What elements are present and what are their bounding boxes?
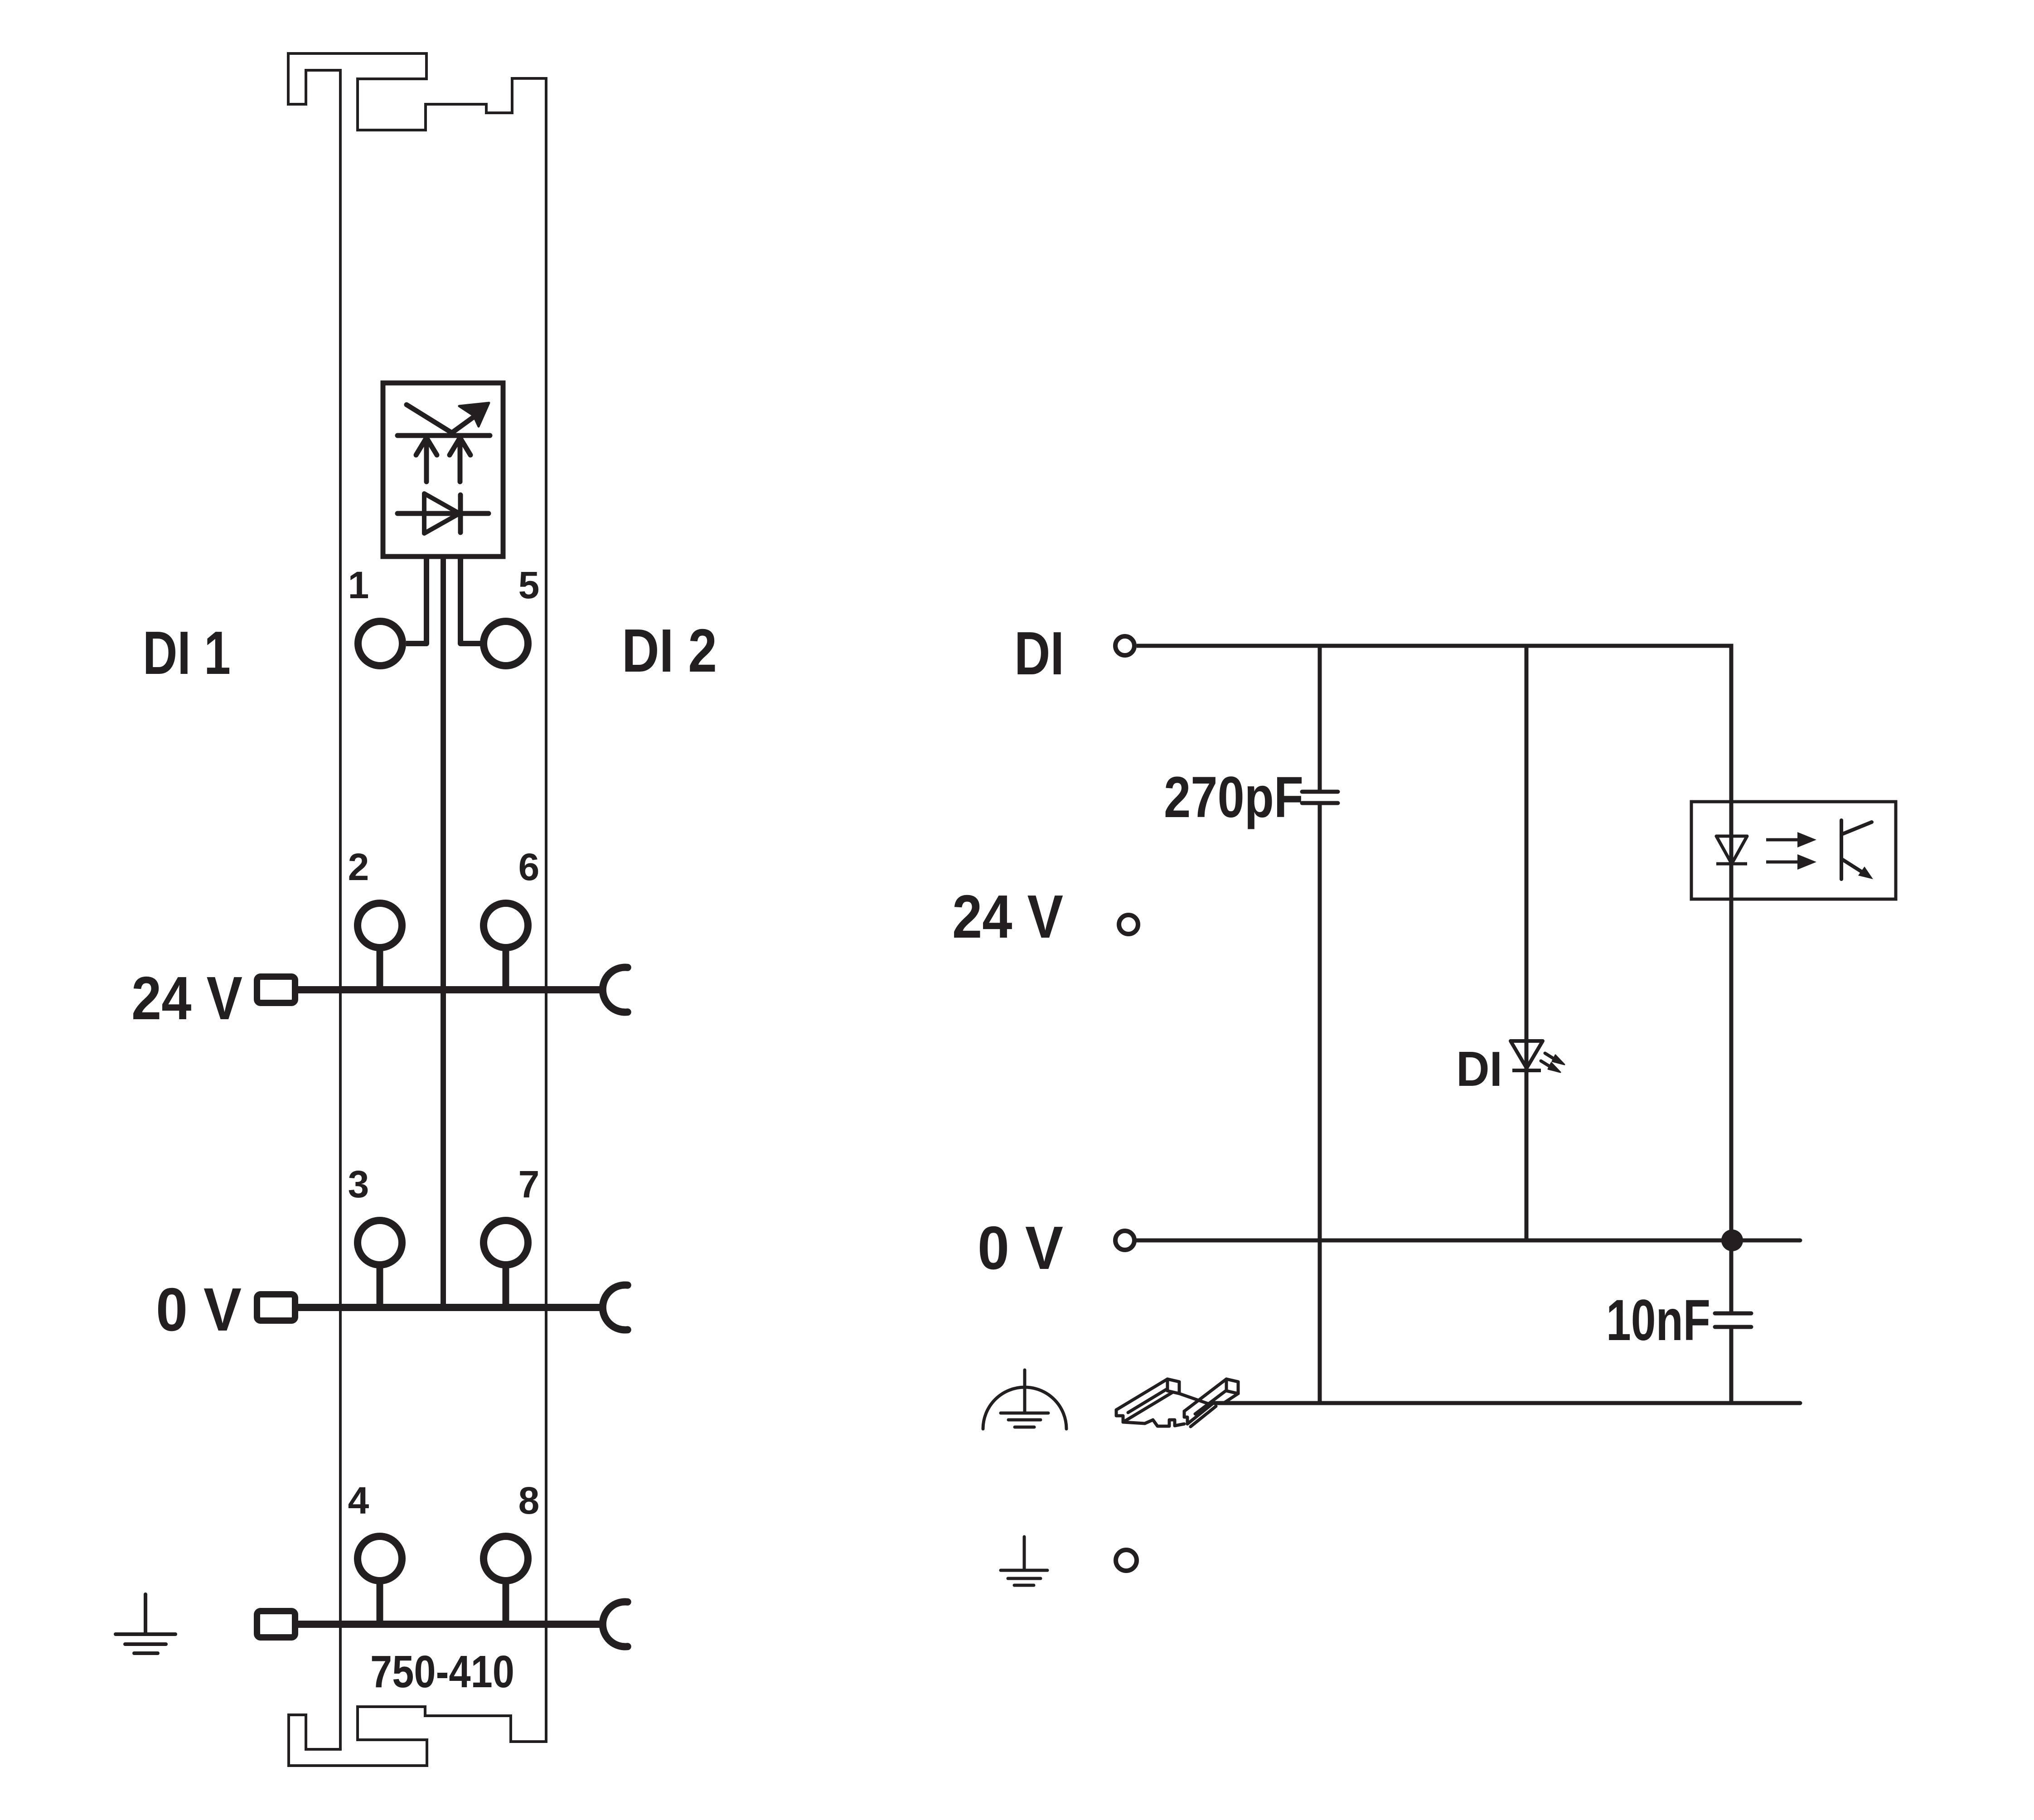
svg-text:5: 5 <box>518 564 540 606</box>
svg-text:DI 1: DI 1 <box>143 619 231 687</box>
svg-text:10nF: 10nF <box>1606 1288 1710 1353</box>
svg-text:7: 7 <box>518 1163 540 1205</box>
svg-text:2: 2 <box>348 846 369 888</box>
svg-text:1: 1 <box>348 564 369 606</box>
svg-text:0 V: 0 V <box>156 1275 242 1344</box>
svg-text:0 V: 0 V <box>978 1214 1063 1282</box>
svg-text:24 V: 24 V <box>131 964 242 1032</box>
svg-text:3: 3 <box>348 1163 369 1205</box>
svg-text:DI 2: DI 2 <box>622 616 717 685</box>
svg-text:4: 4 <box>348 1479 369 1522</box>
svg-text:270pF: 270pF <box>1164 765 1303 830</box>
svg-text:DI: DI <box>1456 1041 1502 1097</box>
svg-text:24 V: 24 V <box>952 882 1063 951</box>
svg-text:DI: DI <box>1014 619 1064 687</box>
svg-text:8: 8 <box>518 1479 540 1522</box>
svg-text:6: 6 <box>518 846 540 888</box>
svg-text:750-410: 750-410 <box>370 1646 514 1697</box>
